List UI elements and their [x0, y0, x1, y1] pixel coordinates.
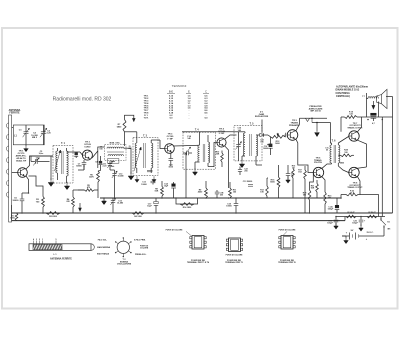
svg-text:1° MF: 1° MF	[167, 138, 173, 140]
capacitor C18	[234, 198, 239, 213]
speaker label ALTOPARLANTE	[336, 85, 369, 98]
wire	[225, 146, 229, 188]
svg-text:PUNTI DI COLORE: PUNTI DI COLORE	[166, 230, 183, 232]
resistor R13	[266, 181, 269, 198]
potentiometer R12	[268, 133, 285, 138]
resistor R18	[308, 186, 311, 213]
wire	[302, 165, 313, 173]
wire	[185, 153, 187, 198]
wire	[208, 166, 214, 168]
resistor R10	[221, 151, 224, 168]
antenna ferrite rod L1	[6, 115, 11, 222]
ground	[103, 197, 105, 201]
supply arrow	[125, 115, 136, 122]
wire	[83, 166, 85, 170]
wire	[330, 123, 332, 144]
wire	[340, 117, 342, 132]
resistor R9	[205, 181, 208, 198]
wire	[100, 197, 341, 199]
wire	[26, 156, 53, 169]
resistor R7	[123, 120, 126, 147]
trimmer capacitor C14	[183, 147, 192, 155]
svg-text:50000: 50000	[13, 200, 20, 202]
core T1	[61, 151, 63, 174]
wire	[136, 131, 138, 133]
wire	[124, 147, 131, 149]
svg-text:IMP. 300 Ω: IMP. 300 Ω	[310, 111, 321, 113]
svg-text:PUNTI DI COLORE: PUNTI DI COLORE	[226, 255, 243, 257]
wire	[344, 217, 346, 221]
wire	[12, 172, 18, 174]
svg-text:MASCHERINA: MASCHERINA	[97, 246, 110, 249]
svg-text:467: 467	[128, 147, 131, 150]
coil T3 primary	[135, 132, 137, 173]
svg-text:10000: 10000	[226, 206, 231, 208]
svg-text:Radiomarelli mod. RD 302: Radiomarelli mod. RD 302	[53, 97, 112, 103]
trimmer capacitor C11	[107, 161, 112, 171]
package terminals T1 T4	[190, 236, 206, 250]
wire	[366, 235, 384, 237]
tuning gang box	[13, 125, 44, 145]
resistor R21	[316, 180, 319, 198]
battery B1 9V	[342, 230, 366, 240]
capacitor C15b	[215, 190, 219, 198]
coil T1 primary	[56, 148, 58, 180]
svg-text:2: 2	[39, 239, 40, 241]
electrolytic capacitor C19	[334, 217, 341, 230]
ferrite rod drawing	[29, 238, 94, 251]
label punti di colore P3	[279, 230, 296, 236]
coil T3 secondary	[151, 140, 153, 173]
svg-text:TENSIONI: TENSIONI	[172, 84, 187, 88]
earphone jack	[300, 118, 331, 124]
transistor TR2	[82, 150, 92, 160]
svg-text:C: C	[205, 91, 207, 94]
trimmer capacitor C12	[112, 170, 117, 180]
IF transformer T3 box	[133, 138, 158, 176]
svg-text:PILOTA: PILOTA	[314, 161, 322, 164]
oscillator trimmer box	[108, 159, 119, 164]
resistor R8	[161, 181, 164, 198]
capacitor C14b	[248, 185, 253, 187]
switch S1	[380, 217, 386, 237]
resistor R19	[341, 116, 393, 119]
svg-text:COLORE: COLORE	[140, 248, 149, 250]
wire	[199, 131, 201, 133]
svg-text:TERMINALI PER T1 E T4: TERMINALI PER T1 E T4	[187, 261, 210, 264]
wire	[358, 117, 362, 132]
resistor R1	[15, 213, 18, 221]
ground	[315, 133, 320, 137]
resistor R2B	[367, 215, 377, 218]
ground	[195, 162, 200, 169]
driver transformer T6	[330, 143, 340, 166]
svg-text:10-480: 10-480	[117, 202, 123, 205]
wire	[26, 176, 29, 193]
svg-text:R2 2200: R2 2200	[49, 216, 58, 218]
wire	[338, 166, 348, 173]
wire	[358, 177, 361, 195]
svg-text:RIVELATORE: RIVELATORE	[255, 115, 269, 118]
transistor TR1	[18, 168, 28, 178]
wire	[360, 195, 379, 217]
coil T4 secondary	[208, 135, 210, 167]
resistor R2A	[346, 215, 356, 218]
svg-text:9,8ah: 9,8ah	[110, 166, 115, 168]
tuning arrow T3	[134, 147, 141, 171]
wire	[338, 137, 348, 144]
wire	[316, 123, 318, 132]
resistor R15	[292, 165, 298, 198]
svg-text:50000: 50000	[76, 166, 82, 168]
svg-text:4,7: 4,7	[372, 122, 375, 125]
svg-text:56K: 56K	[155, 191, 159, 193]
svg-text:INT.: INT.	[387, 229, 391, 231]
svg-text:4: 4	[33, 238, 34, 241]
voltage table TENSIONI	[144, 84, 209, 119]
resistor R6 zig	[97, 171, 101, 199]
wire	[114, 180, 116, 198]
wire	[66, 180, 68, 183]
svg-text:BOB. OSC.: BOB. OSC.	[110, 143, 121, 145]
trimmer capacitor C10b	[110, 198, 115, 213]
svg-text:200: 200	[244, 171, 247, 173]
electrolytic capacitor C21	[371, 113, 377, 125]
wire	[284, 135, 286, 137]
arrow to bus	[79, 203, 82, 212]
electrolytic capacitor C16	[268, 137, 273, 155]
electrolytic capacitor C20	[359, 217, 366, 227]
svg-text:2° MF: 2° MF	[219, 133, 225, 135]
svg-text:1K2: 1K2	[298, 172, 301, 174]
wire	[367, 93, 379, 117]
svg-text:PRESA SOL.: PRESA SOL.	[135, 253, 147, 256]
svg-text:10000: 10000	[141, 184, 146, 186]
svg-text:FILO SOL.: FILO SOL.	[98, 240, 108, 242]
electrolytic capacitor C2A	[335, 198, 340, 213]
wire	[322, 164, 332, 168]
wire	[173, 144, 199, 147]
wire	[11, 205, 13, 221]
oscillator coil T2 box	[105, 145, 127, 161]
transistor TR8	[349, 167, 359, 177]
variable capacitor C1	[23, 125, 30, 145]
core T4	[203, 144, 205, 162]
core T2	[107, 151, 124, 153]
svg-text:GUAD. RF: GUAD. RF	[16, 159, 27, 162]
svg-text:R14 1820: R14 1820	[183, 206, 191, 209]
resistor R16	[277, 172, 280, 198]
svg-text:9,6m: 9,6m	[39, 153, 44, 155]
ground	[66, 182, 68, 186]
capacitor C19b	[286, 170, 291, 183]
svg-text:100: 100	[260, 142, 263, 144]
svg-text:9V D.C.: 9V D.C.	[367, 232, 374, 234]
svg-text:200: 200	[220, 195, 223, 197]
wire	[160, 140, 165, 149]
ground	[345, 237, 347, 241]
svg-text:B-E: B-E	[169, 91, 174, 94]
svg-text:FERRITE: FERRITE	[9, 112, 20, 115]
capacitor C13	[147, 170, 153, 172]
core T3	[143, 143, 145, 168]
wire	[266, 178, 268, 181]
wire	[296, 118, 300, 130]
ground	[130, 152, 132, 174]
resistor R28	[338, 150, 354, 161]
wire	[296, 139, 302, 165]
svg-text:50: 50	[326, 150, 328, 152]
diode D1	[256, 133, 268, 137]
resistor R14	[180, 203, 194, 206]
svg-text:6800: 6800	[340, 163, 344, 165]
package terminals T3	[226, 238, 242, 252]
coil T5 secondary	[256, 135, 258, 156]
svg-text:1: 1	[42, 239, 43, 241]
resistor R4	[72, 190, 85, 213]
wire	[12, 212, 393, 214]
wire	[225, 135, 237, 139]
svg-text:10000: 10000	[263, 148, 268, 150]
transistor TR7	[349, 131, 359, 141]
capacitor C10	[169, 153, 174, 166]
wire	[12, 127, 14, 129]
wire	[234, 131, 245, 133]
coil T2 secondary	[108, 155, 124, 157]
ground	[50, 178, 52, 183]
wire	[92, 147, 105, 158]
ground	[153, 176, 155, 179]
svg-text:5: 5	[56, 239, 57, 241]
wire	[67, 151, 81, 153]
wire	[310, 197, 318, 199]
svg-text:50: 50	[291, 176, 293, 178]
wire	[30, 156, 32, 162]
wire	[11, 220, 13, 222]
wire	[124, 131, 126, 133]
resistor R23	[324, 192, 327, 213]
tuning arrow T1	[55, 150, 61, 171]
svg-text:INDUTTANZA: INDUTTANZA	[97, 253, 110, 256]
electrolytic capacitor C1A	[171, 182, 176, 198]
svg-text:TRANS. DI POT.: TRANS. DI POT.	[347, 186, 363, 189]
node junctions	[21, 119, 383, 218]
output transformer T7	[367, 97, 379, 99]
svg-text:100μF: 100μF	[352, 223, 358, 225]
svg-text:3: 3	[36, 239, 37, 241]
transistor TR4	[217, 138, 226, 147]
svg-text:TERMINALI PER T3: TERMINALI PER T3	[225, 261, 242, 264]
svg-text:TOT.: TOT.	[144, 117, 149, 119]
wire	[176, 198, 198, 204]
resistor R2	[46, 212, 60, 215]
svg-text:56K: 56K	[311, 188, 315, 190]
svg-text:R4 1200: R4 1200	[134, 215, 142, 218]
wire	[261, 120, 263, 133]
wire	[97, 151, 99, 168]
transistor TR3	[165, 144, 175, 154]
svg-text:680: 680	[303, 195, 306, 197]
resistor R17	[304, 166, 307, 198]
core T5	[250, 134, 252, 156]
capacitor C13b	[151, 181, 156, 184]
wire	[214, 143, 217, 168]
IF transformer T4 box	[183, 132, 216, 169]
speaker	[377, 89, 388, 108]
svg-text:500μF: 500μF	[328, 209, 334, 211]
svg-text:ANTENNA FERRITE: ANTENNA FERRITE	[50, 258, 72, 261]
wire	[151, 139, 160, 141]
wire	[304, 198, 306, 206]
wire	[12, 220, 345, 222]
capacitor C6	[20, 193, 29, 213]
ground	[360, 224, 362, 228]
resistor R5	[78, 189, 98, 192]
oscillator coil T2 pinout diagram	[115, 237, 132, 257]
capacitor C22	[238, 167, 242, 176]
wire	[322, 177, 325, 192]
wire	[80, 152, 82, 155]
svg-text:T.7: T.7	[362, 96, 365, 98]
wire	[278, 165, 280, 172]
svg-text:100: 100	[99, 149, 102, 151]
wire	[287, 165, 289, 170]
wire	[255, 134, 257, 136]
trimmer capacitor C15	[235, 132, 241, 161]
resistor R4b	[132, 212, 144, 215]
svg-text:10-480: 10-480	[117, 175, 123, 178]
svg-text:C13 50000: C13 50000	[243, 181, 252, 183]
wire	[256, 156, 262, 165]
resistor R3	[42, 190, 45, 213]
IF transformer T1 box	[53, 146, 73, 184]
electrolytic capacitor C6b	[74, 152, 78, 158]
wire	[381, 117, 383, 217]
capacitor C7	[82, 160, 87, 170]
wire	[29, 176, 44, 190]
wire	[310, 173, 314, 187]
ground	[25, 145, 27, 149]
package terminals T6	[279, 236, 295, 250]
coil T1 secondary	[67, 148, 69, 180]
variable capacitor C2	[40, 125, 47, 145]
trimmer capacitor C5	[31, 158, 50, 166]
wire	[340, 195, 342, 199]
svg-text:CONV.: CONV.	[84, 146, 91, 148]
coil T5 primary	[243, 132, 245, 156]
resistor R22	[341, 193, 358, 196]
svg-text:100μF: 100μF	[327, 223, 333, 225]
coil T4 primary	[198, 132, 200, 162]
wire	[336, 216, 385, 218]
electrolytic capacitor C17	[154, 198, 158, 213]
wire	[110, 169, 115, 171]
wire	[358, 167, 367, 168]
svg-text:MB 2: MB 2	[32, 137, 38, 139]
supply arrow to speaker	[372, 101, 375, 109]
resistor R11	[229, 182, 232, 198]
coil T2 primary	[107, 147, 124, 149]
wire	[358, 140, 367, 167]
wire	[392, 97, 394, 214]
ground	[103, 198, 105, 202]
electrolytic capacitor C8	[98, 156, 102, 171]
ground	[242, 156, 245, 161]
svg-text:TERMINALI PER T6: TERMINALI PER T6	[278, 261, 295, 264]
transistor TR5	[287, 130, 298, 141]
label punti di colore P1	[166, 230, 191, 236]
IF transformer T5 box	[234, 125, 262, 160]
wire	[386, 96, 393, 98]
capacitor C17c	[285, 133, 287, 137]
svg-text:OSCILLATORE: OSCILLATORE	[117, 263, 132, 266]
ground	[136, 176, 138, 179]
wire	[30, 156, 54, 180]
svg-text:PUNTI DI COLORE: PUNTI DI COLORE	[279, 230, 296, 232]
transistor TR6	[313, 167, 323, 177]
svg-text:CENTRALE): CENTRALE)	[336, 95, 350, 98]
svg-text:2-20: 2-20	[103, 166, 107, 168]
svg-text:S.FILO PRIN.: S.FILO PRIN.	[134, 240, 146, 242]
